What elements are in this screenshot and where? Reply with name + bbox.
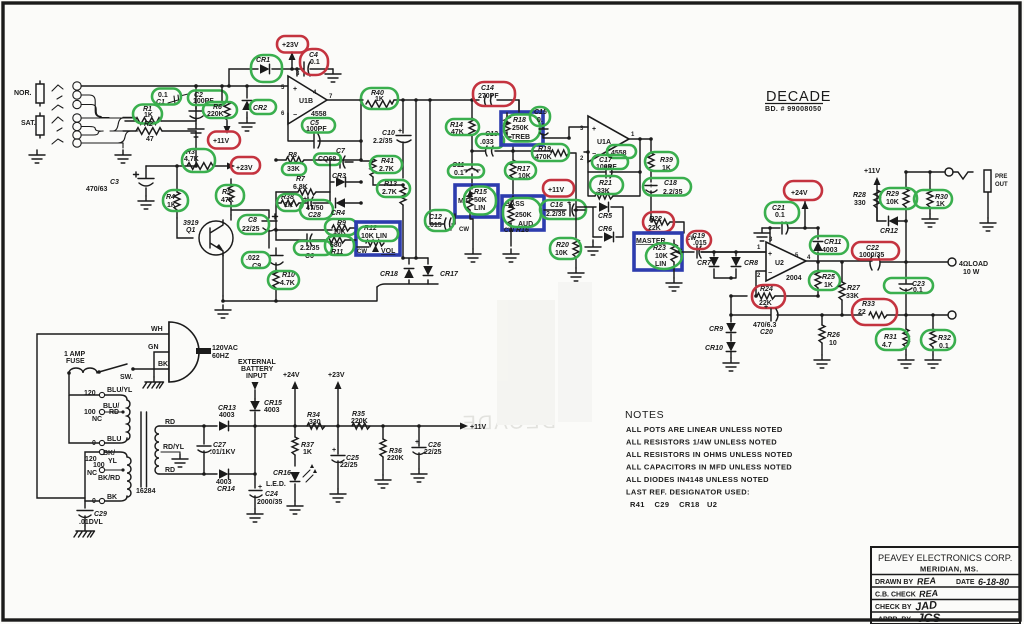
highlight +23V red (231, 157, 260, 174)
wire WH (37, 326, 169, 498)
svg-text:RD/YL: RD/YL (163, 444, 185, 451)
svg-text:10K: 10K (886, 199, 899, 206)
highlight R4 (163, 190, 188, 211)
highlight C1 (152, 89, 181, 105)
svg-text:SAT.: SAT. (21, 120, 36, 127)
resistor R19 470K (513, 136, 576, 210)
svg-text:C24: C24 (265, 491, 278, 498)
ground (CR2) (239, 118, 255, 131)
svg-text:4.7K: 4.7K (280, 280, 295, 287)
svg-text:R35: R35 (352, 411, 365, 418)
svg-text:CR16: CR16 (273, 470, 291, 477)
pre out wiring (906, 168, 973, 179)
ground (R36) (375, 475, 391, 488)
diode CR3 (330, 160, 363, 203)
svg-text:CR2: CR2 (253, 105, 267, 112)
svg-text:R19: R19 (538, 146, 551, 153)
diode CR17 (423, 258, 459, 284)
+11V supply tag (U1A) (548, 187, 564, 194)
capacitor C27 .01/1KV (197, 424, 236, 476)
ground (C21) (754, 228, 770, 241)
svg-text:0.: 0. (537, 117, 543, 124)
svg-text:22/25: 22/25 (242, 226, 260, 233)
highlight CR11 (810, 236, 848, 254)
svg-text:+: + (592, 126, 596, 133)
resistor R5 47K (221, 179, 234, 215)
notes lines (626, 425, 793, 509)
ground (bottom rail) (215, 305, 231, 318)
highlight C13 (476, 134, 504, 148)
svg-text:MERIDIAN, MS.: MERIDIAN, MS. (920, 565, 978, 574)
ground (MID pot) (465, 249, 481, 262)
title block frame (871, 547, 1020, 624)
svg-text:C18: C18 (664, 180, 677, 187)
jack J2 (36, 113, 44, 138)
ground (CR16) (287, 501, 303, 514)
+23V supply tag (236, 165, 253, 172)
diode CR6 (593, 226, 623, 242)
svg-text:R10: R10 (282, 272, 295, 279)
svg-text:1K: 1K (303, 449, 312, 456)
svg-text:+23V: +23V (282, 42, 299, 49)
resistor R39 1K (648, 137, 673, 182)
jack contact circles (73, 82, 81, 147)
ground (C4) (325, 69, 341, 82)
svg-text:10K: 10K (555, 250, 568, 257)
highlight R31 (876, 329, 909, 350)
capacitor C25 22/25 (331, 426, 359, 489)
svg-text:BK/RD: BK/RD (98, 475, 120, 482)
highlight C8 (238, 215, 269, 234)
svg-text:CW: CW (357, 249, 367, 255)
svg-text:INPUT: INPUT (246, 373, 268, 380)
capacitor C4 0.1 (292, 52, 333, 76)
decade title (765, 89, 831, 113)
svg-text:10 W: 10 W (963, 269, 980, 276)
highlight R15 green inner (464, 187, 496, 215)
resistor R7 6.8K (274, 158, 330, 195)
resistor R26 10 (819, 313, 840, 355)
svg-text:FUSE: FUSE (66, 358, 85, 365)
svg-text:NOR.: NOR. (14, 90, 32, 97)
svg-text:C8: C8 (248, 217, 257, 224)
diode CR4 (331, 100, 363, 217)
resistor R41 2.7K (361, 158, 403, 185)
op-amp U2 (701, 228, 872, 298)
svg-text:NOTES: NOTES (625, 409, 664, 421)
highlight R39 (645, 152, 678, 171)
svg-text:R14: R14 (450, 122, 463, 129)
ground (MASTER) (666, 278, 682, 291)
highlight R5 (216, 185, 244, 206)
wire U1B out to tone stack (414, 98, 519, 260)
highlight C4 (300, 49, 328, 75)
external battery input (238, 359, 276, 399)
svg-text:CR4: CR4 (331, 210, 345, 217)
svg-text:R30: R30 (935, 194, 948, 201)
svg-text:16284: 16284 (136, 488, 156, 495)
diode CR9 (709, 296, 736, 333)
capacitor C19 .015 (682, 233, 766, 258)
svg-text:C3: C3 (110, 179, 119, 186)
capacitor C18 2.2/35 (645, 180, 683, 222)
svg-text:250K: 250K (512, 125, 529, 132)
svg-text:CR12: CR12 (880, 228, 898, 235)
ground (trunk) (115, 150, 131, 163)
pot R16 BASS 250K AUD (502, 196, 544, 246)
resistor R31 4.7 (882, 315, 909, 355)
svg-text:R28: R28 (853, 192, 866, 199)
op-amp U1B (281, 67, 363, 124)
svg-text:EXTERNAL: EXTERNAL (238, 359, 276, 366)
highlight R10 (268, 271, 299, 289)
transformer T1 secondary winding (155, 419, 204, 474)
diode CR2 (242, 84, 267, 118)
svg-text:+23V: +23V (236, 165, 253, 172)
highlight CR1 (251, 55, 282, 82)
svg-text:1 AMP: 1 AMP (64, 351, 85, 358)
pot R15 MID 50K LIN (455, 185, 498, 249)
AC plug (169, 322, 238, 382)
svg-text:BK/: BK/ (103, 450, 115, 457)
svg-text:BATTERY: BATTERY (241, 366, 274, 373)
+24V supply arrow (283, 372, 300, 426)
svg-text:R31: R31 (884, 334, 897, 341)
svg-text:4.7: 4.7 (882, 342, 892, 349)
svg-text:R32: R32 (938, 335, 951, 342)
svg-text:220K: 220K (387, 455, 404, 462)
svg-text:C25: C25 (346, 455, 359, 462)
svg-text:470/6.3: 470/6.3 (753, 322, 776, 329)
highlight +24V red (784, 181, 822, 200)
svg-text:+: + (398, 128, 402, 135)
resistor R35 220K (351, 411, 370, 429)
svg-text:50K: 50K (474, 197, 487, 204)
resistor R36 220K (380, 426, 404, 475)
svg-text:−: − (768, 270, 772, 277)
capacitor C20 470/6.3 (729, 304, 862, 336)
svg-text:PRE: PRE (995, 174, 1007, 180)
ground (secondary CT) (172, 454, 188, 467)
svg-text:CR13: CR13 (218, 405, 236, 412)
capacitor C9 .022 (223, 248, 283, 296)
highlight R11 (325, 236, 354, 255)
svg-text:+: + (764, 304, 768, 311)
svg-text:BLU: BLU (107, 436, 121, 443)
capacitor C22 1000/35 (859, 245, 948, 270)
highlight C7 (314, 154, 341, 166)
svg-text:DRAWN BY: DRAWN BY (875, 579, 913, 586)
svg-text:R41 C29 CR18 U2: R41 C29 CR18 U2 (630, 500, 717, 509)
resistor R30 1K (927, 170, 948, 214)
wire bottom rail (221, 287, 377, 303)
transistor Q1 3919 (177, 215, 233, 256)
ground (C29 hatched) (74, 526, 95, 537)
svg-text:47: 47 (146, 136, 154, 143)
svg-text:C15: C15 (534, 109, 547, 116)
resistor R24 22K (729, 286, 818, 307)
svg-text:C4: C4 (309, 52, 318, 59)
diode CR10 (705, 334, 736, 358)
diode CR5 (576, 202, 623, 237)
svg-text:+11V: +11V (470, 424, 486, 431)
svg-text:0.1: 0.1 (775, 212, 785, 219)
svg-text:CR6: CR6 (598, 226, 612, 233)
svg-text:ALL CAPACITORS IN MFD UNLESS N: ALL CAPACITORS IN MFD UNLESS NOTED (626, 463, 792, 472)
svg-text:VOL: VOL (381, 248, 396, 255)
svg-text:OUT: OUT (995, 182, 1008, 188)
resistor R28 330 (853, 190, 880, 221)
highlight R24 red (752, 285, 785, 308)
svg-text:REA: REA (917, 575, 937, 586)
svg-text:.015: .015 (693, 240, 707, 247)
svg-text:C27: C27 (213, 442, 227, 449)
svg-text:C17: C17 (599, 157, 613, 164)
svg-text:R18: R18 (513, 117, 526, 124)
jack contact springs (52, 85, 63, 144)
svg-text:22/25: 22/25 (340, 462, 358, 469)
diode CR18 (377, 256, 438, 287)
svg-text:+24V: +24V (791, 190, 808, 197)
svg-text:DECADE: DECADE (766, 89, 831, 105)
svg-text:C20: C20 (760, 329, 773, 336)
svg-text:10K: 10K (655, 253, 668, 260)
svg-text:R26: R26 (827, 332, 840, 339)
highlight C12 (425, 210, 454, 231)
highlight R40 (361, 88, 398, 109)
svg-text:1K: 1K (824, 282, 833, 289)
resistor R22 22K (648, 216, 696, 242)
highlight R30 (914, 190, 952, 208)
ground (C24) (247, 509, 263, 522)
svg-text:.022: .022 (246, 255, 260, 262)
resistor R6 220K (207, 84, 231, 134)
svg-text:REA: REA (919, 588, 939, 599)
resistor R10 4.7K (273, 269, 295, 301)
svg-text:2000/35: 2000/35 (257, 499, 282, 506)
ground (C25) (330, 489, 346, 502)
svg-text:R4: R4 (166, 194, 175, 201)
svg-text:C14: C14 (481, 85, 494, 92)
capacitor C28 47/50 (299, 196, 330, 219)
highlight R8 (282, 163, 306, 175)
svg-text:ALL RESISTORS IN OHMS UNLESS N: ALL RESISTORS IN OHMS UNLESS NOTED (626, 450, 793, 459)
highlight C6 (294, 241, 332, 255)
output terminal 4ohm (948, 258, 988, 276)
svg-text:YL: YL (108, 458, 118, 465)
highlight C15 (530, 107, 550, 126)
svg-text:R20: R20 (556, 242, 569, 249)
highlight R1 (133, 105, 162, 124)
+23V supply arrow (328, 372, 345, 426)
title block company name (878, 553, 1012, 574)
highlight R3 (182, 149, 215, 172)
svg-text:10: 10 (829, 340, 837, 347)
svg-text:LAST REF. DESIGNATOR USED:: LAST REF. DESIGNATOR USED: (626, 488, 750, 497)
svg-text:120VAC: 120VAC (212, 345, 238, 352)
svg-text:33K: 33K (287, 166, 300, 173)
capacitor C15 0.1 (534, 109, 584, 138)
svg-text:R36: R36 (389, 448, 402, 455)
highlight C23 (884, 278, 933, 293)
wire bus top (81, 85, 288, 87)
resistor R29 10K (886, 170, 909, 262)
svg-text:R41: R41 (381, 158, 394, 165)
capacitor C7 CQ68 (318, 148, 353, 168)
svg-text:330: 330 (854, 200, 866, 207)
svg-text:BK: BK (107, 494, 117, 501)
highlight R19 (532, 144, 569, 161)
svg-text:R27: R27 (847, 285, 861, 292)
svg-text:ALL DIODES IN4148 UNLESS NOTED: ALL DIODES IN4148 UNLESS NOTED (626, 475, 769, 484)
capacitor C14 270PF (478, 85, 499, 106)
svg-text:+11V: +11V (548, 187, 564, 194)
diode CR15 (250, 399, 282, 426)
svg-text:C29: C29 (94, 511, 107, 518)
svg-text:0.1: 0.1 (158, 92, 168, 99)
resistor R17 10K (510, 151, 531, 196)
svg-text:R6: R6 (213, 104, 222, 111)
svg-text:CR5: CR5 (598, 213, 612, 220)
title block appr by row (878, 611, 940, 624)
wire GN (148, 344, 169, 377)
capacitor C26 22/25 (412, 426, 442, 469)
svg-text:C10: C10 (382, 130, 395, 137)
capacitor C3 470/63 (86, 166, 196, 196)
resistor R9 10K (274, 220, 356, 236)
highlight R9 (325, 219, 357, 235)
svg-text:C16: C16 (550, 202, 563, 209)
svg-text:R29: R29 (886, 191, 899, 198)
svg-text:ALL RESISTORS 1/4W UNLESS NOTE: ALL RESISTORS 1/4W UNLESS NOTED (626, 438, 777, 447)
svg-text:C21: C21 (772, 205, 785, 212)
svg-text:4003: 4003 (216, 479, 232, 486)
svg-text:+11V: +11V (864, 168, 880, 175)
+11V supply tag (pre out) (864, 168, 881, 221)
ground (R26) (814, 355, 830, 368)
transformer T1 primary winding upper (127, 400, 130, 440)
resistor R13 2.7K (382, 181, 406, 258)
svg-text:C26: C26 (428, 442, 441, 449)
svg-text:R33: R33 (862, 301, 875, 308)
fuse F1 1AMP (64, 351, 101, 394)
svg-text:CR8: CR8 (744, 260, 758, 267)
ground (R20) (568, 268, 584, 281)
highlight R41 (370, 156, 402, 173)
title block cb check row (875, 588, 938, 599)
svg-text:2.2/35: 2.2/35 (373, 138, 393, 145)
capacitor C12 .015 (428, 214, 469, 233)
resistor R20 10K (555, 208, 585, 268)
highlight R6 (203, 102, 237, 118)
highlight C16 (540, 200, 586, 219)
svg-text:R25: R25 (822, 274, 835, 281)
svg-text:100: 100 (84, 409, 96, 416)
transformer T1 primary winding lower (127, 457, 131, 497)
highlight R32 (921, 330, 955, 350)
+23V supply tag (U1B) (282, 42, 299, 71)
svg-text:LIN: LIN (474, 205, 485, 212)
transformer T1 primary taps (69, 387, 133, 447)
svg-text:C.B. CHECK: C.B. CHECK (875, 592, 916, 599)
svg-text:R15: R15 (474, 189, 487, 196)
capacitor C17 100PF (586, 137, 642, 178)
diode CR13 (204, 405, 255, 431)
svg-text:3919: 3919 (183, 220, 199, 227)
svg-text:R39: R39 (660, 157, 673, 164)
svg-text:CR14: CR14 (217, 486, 235, 493)
ground (pre out) (980, 218, 996, 231)
svg-text:BLU/YL: BLU/YL (107, 387, 133, 394)
svg-text:R24: R24 (760, 286, 773, 293)
capacitor C13 .033 (472, 131, 515, 156)
highlight R14 (446, 119, 479, 135)
svg-text:.01/1KV: .01/1KV (210, 449, 236, 456)
svg-text:CHECK BY: CHECK BY (875, 604, 912, 611)
svg-text:270PF: 270PF (478, 93, 499, 100)
svg-text:2.2/35: 2.2/35 (300, 245, 320, 252)
ground (CR10) (723, 358, 739, 371)
ground (CR5/CR6) (585, 242, 601, 255)
diode CR1 (227, 57, 292, 88)
op-amp U1A (580, 116, 651, 162)
svg-text:+: + (332, 447, 336, 454)
svg-text:33K: 33K (846, 293, 859, 300)
ground (C3) (138, 196, 154, 209)
capacitor C11 0.1 (430, 100, 480, 224)
capacitor C23 0.1 (899, 260, 925, 317)
resistor R27 33K (839, 260, 861, 317)
svg-text:6-18-80: 6-18-80 (978, 577, 1009, 587)
svg-text:C12: C12 (429, 214, 442, 221)
svg-text:U1A: U1A (597, 139, 611, 146)
svg-text:+11V: +11V (213, 138, 229, 145)
resistor R21 33K (588, 170, 642, 199)
svg-text:R34: R34 (307, 412, 320, 419)
wire trunk to R1/R2 (123, 118, 136, 132)
highlight R38 (277, 194, 303, 211)
svg-text:U2: U2 (775, 260, 784, 267)
highlight R17 (505, 162, 536, 179)
diode CR14 (204, 469, 255, 493)
highlight C2 (188, 91, 227, 106)
resistor R32 0.1 (930, 313, 951, 355)
svg-text:+: + (768, 251, 772, 258)
diode CR7 (697, 250, 719, 278)
capacitor C16 2.2/35 (544, 200, 585, 218)
highlight +11V red (208, 132, 240, 149)
svg-text:CW: CW (459, 227, 469, 233)
highlight C21 (765, 202, 799, 223)
svg-text:PEAVEY ELECTRONICS CORP.: PEAVEY ELECTRONICS CORP. (878, 553, 1012, 563)
title block drawn by row (875, 575, 1009, 587)
resistor R25 1K (815, 262, 835, 298)
svg-text:+23V: +23V (328, 372, 345, 379)
highlight R22 red (643, 212, 674, 232)
+24V supply tag (791, 190, 809, 228)
ground (R31) (898, 355, 914, 368)
svg-text:R7: R7 (296, 176, 306, 183)
capacitor C6 2.2/35 (276, 230, 326, 260)
svg-text:U1B: U1B (299, 98, 313, 105)
resistor R8 33K (276, 152, 363, 173)
capacitor C29 .01DVL (77, 501, 107, 526)
LED CR16 (266, 464, 317, 501)
svg-text:R13: R13 (384, 181, 397, 188)
title block check by row (875, 599, 938, 613)
svg-text:RD: RD (165, 419, 175, 426)
capacitor C8 22/25 (231, 210, 278, 248)
